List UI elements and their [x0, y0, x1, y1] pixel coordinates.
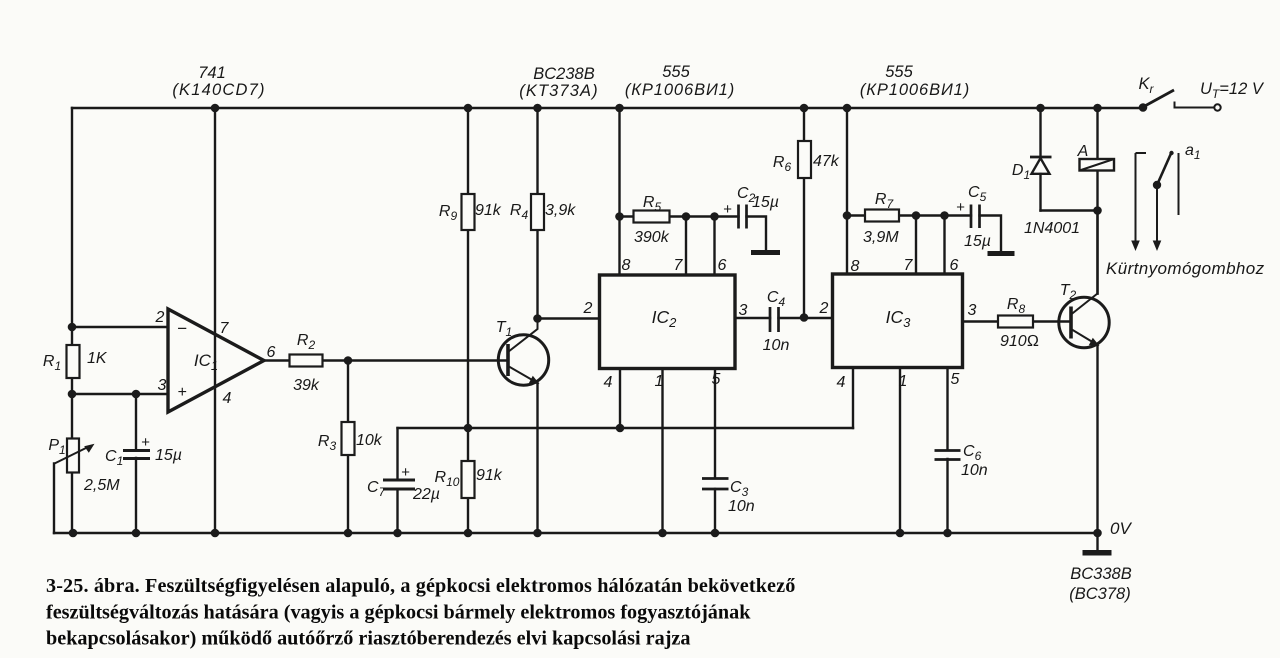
svg-text:R4: R4 [510, 202, 529, 222]
node IC2 pin6 [710, 212, 719, 221]
svg-text:+: + [956, 199, 965, 216]
svg-text:555: 555 [885, 63, 913, 81]
wire IC2 pin3 to C4 [735, 317, 770, 319]
svg-text:5: 5 [712, 371, 721, 388]
node pin2 left [68, 323, 77, 332]
wire IC2 pin8 column [618, 108, 620, 275]
label BC238B (KT373A) [519, 65, 598, 100]
wire IC3 pin8 column [846, 108, 848, 274]
svg-text:(BC378): (BC378) [1069, 585, 1130, 603]
label BC338B (BC378) [1069, 565, 1131, 603]
wire R6 column [803, 108, 805, 318]
svg-text:2: 2 [819, 300, 829, 317]
node R7 left [843, 211, 852, 220]
svg-text:22µ: 22µ [412, 486, 440, 503]
node 0V C6 [943, 529, 952, 538]
transistor Q1 T1 [496, 319, 549, 386]
resistor R8 [998, 296, 1039, 350]
wire 0V rail [54, 532, 1098, 534]
wire left vertical branch [71, 108, 73, 533]
svg-text:2: 2 [155, 309, 165, 326]
svg-text:D1: D1 [1012, 162, 1030, 182]
svg-text:UT=12 V: UT=12 V [1200, 80, 1265, 101]
relay A [1077, 143, 1114, 171]
wire op-amp pin2 [72, 326, 168, 328]
svg-text:C7: C7 [367, 479, 387, 499]
svg-text:10n: 10n [961, 462, 988, 479]
svg-text:39k: 39k [293, 377, 320, 394]
resistor R7 [863, 191, 899, 246]
wire D1 column [1039, 108, 1041, 211]
svg-text:7: 7 [674, 257, 684, 274]
ground below C5 [988, 251, 1015, 256]
wire IC3 pin5 / C6 column [946, 368, 948, 534]
svg-text:47k: 47k [813, 153, 840, 170]
op-amp U1 IC1 [155, 309, 276, 412]
svg-text:15µ: 15µ [752, 194, 779, 211]
wire T2 collector column [1096, 211, 1098, 294]
capacitor C5 [956, 184, 991, 250]
svg-text:(KT373A): (KT373A) [519, 82, 598, 100]
wire IC2 pin7 stub [685, 217, 687, 276]
wire IC3 pin4 riser [852, 368, 854, 429]
svg-text:3,9M: 3,9M [863, 229, 899, 246]
wire IC1 output to node A [264, 359, 348, 361]
node 0V C7 [393, 529, 402, 538]
wire R3 column [347, 361, 349, 534]
wire reset line y428 [398, 427, 854, 429]
svg-text:Kürtnyomógombhoz: Kürtnyomógombhoz [1106, 259, 1265, 278]
svg-text:A: A [1077, 143, 1089, 160]
svg-text:R7: R7 [875, 191, 895, 211]
a1 fixed contact [1178, 153, 1180, 215]
svg-text:R8: R8 [1007, 296, 1026, 316]
node 0V T2 emitter [1093, 529, 1102, 538]
svg-text:C6: C6 [963, 443, 982, 463]
svg-text:555: 555 [662, 63, 690, 81]
svg-text:BC238B: BC238B [533, 65, 594, 83]
node 0V IC3 pin1 [896, 529, 905, 538]
wire T1 collector to IC2 pin2 [538, 317, 600, 319]
node R6 bottom [800, 313, 809, 322]
ground at 0V rail [1083, 550, 1112, 556]
node D1 relay bottom [1093, 206, 1102, 215]
wire IC3 pin1 column [899, 368, 901, 534]
svg-text:4: 4 [223, 390, 232, 407]
wire T1 emitter column [536, 383, 538, 533]
svg-text:6: 6 [267, 344, 276, 361]
node R9 R10 reset [464, 424, 473, 433]
wire C7 top [396, 428, 398, 479]
svg-text:3: 3 [968, 302, 977, 319]
node top rail IC2 pin8 [615, 104, 624, 113]
wire C4 to IC3 pin2 [779, 317, 833, 319]
svg-text:15µ: 15µ [964, 233, 991, 250]
ground below C2 [751, 250, 780, 255]
svg-text:910Ω: 910Ω [1000, 333, 1039, 350]
svg-text:3-25. ábra. Feszültségfigyelés: 3-25. ábra. Feszültségfigyelésen alapuló… [46, 575, 795, 597]
capacitor C6 [935, 443, 988, 479]
svg-text:4: 4 [604, 374, 613, 391]
svg-text:7: 7 [220, 320, 230, 337]
svg-text:10k: 10k [356, 432, 383, 449]
node top rail D1 [1036, 104, 1045, 113]
svg-text:8: 8 [851, 258, 860, 275]
svg-text:C5: C5 [968, 184, 987, 204]
node 0V R10 [464, 529, 473, 538]
node top rail R9 [464, 104, 473, 113]
node top rail IC3 pin8 [843, 104, 852, 113]
resistor R4 [510, 194, 576, 230]
svg-text:−: − [177, 319, 187, 338]
left arrow [1136, 153, 1147, 243]
resistor R5 [634, 194, 670, 246]
svg-text:(K140CD7): (K140CD7) [172, 81, 265, 99]
wire R5 row [620, 215, 739, 217]
svg-text:bekapcsolásakor) működő autóőr: bekapcsolásakor) működő autóőrző riasztó… [46, 628, 690, 650]
node IC3 pin7 [912, 211, 921, 220]
node 0V P1 [69, 529, 78, 538]
wire IC2 pin5 / C3 column [714, 369, 716, 534]
svg-text:390k: 390k [634, 229, 670, 246]
svg-text:R3: R3 [318, 433, 337, 453]
svg-text:3: 3 [158, 377, 167, 394]
svg-text:+: + [141, 434, 150, 451]
resistor R6 [773, 141, 840, 178]
svg-text:1K: 1K [87, 350, 108, 367]
svg-text:T2: T2 [1060, 282, 1077, 302]
svg-text:1: 1 [655, 373, 664, 390]
svg-text:4: 4 [837, 374, 846, 391]
resistor R2 [290, 332, 323, 394]
svg-text:15µ: 15µ [155, 447, 182, 464]
wire R7 row [847, 214, 971, 216]
svg-text:+: + [177, 384, 186, 401]
svg-text:10n: 10n [763, 337, 790, 354]
capacitor C1 [105, 434, 182, 468]
wire R9-R10 column [467, 108, 469, 533]
node top rail relay [1093, 104, 1102, 113]
label 555 (KP1006BU1) first [625, 63, 735, 99]
node C1 top [132, 390, 141, 399]
node R5 left [615, 212, 624, 221]
switch a1 lever [1153, 181, 1161, 189]
svg-text:+: + [401, 464, 410, 481]
resistor R3 [318, 422, 383, 455]
wire T2 emitter column [1096, 345, 1098, 533]
capacitor C3 [702, 479, 755, 516]
svg-text:BC338B: BC338B [1070, 565, 1131, 583]
node top rail Kr [1139, 103, 1148, 112]
node IC3 pin6 [940, 211, 949, 220]
svg-text:feszültségváltozás hatására (v: feszültségváltozás hatására (vagyis a gé… [46, 602, 751, 624]
svg-text:3,9k: 3,9k [545, 202, 576, 219]
svg-text:91k: 91k [476, 467, 503, 484]
svg-text:5: 5 [951, 371, 960, 388]
resistor R10 [435, 461, 503, 498]
IC2 555 box [583, 257, 748, 391]
svg-text:6: 6 [718, 257, 727, 274]
svg-text:C4: C4 [767, 289, 786, 309]
svg-text:1N4001: 1N4001 [1024, 220, 1080, 237]
svg-text:3: 3 [739, 302, 748, 319]
svg-text:R2: R2 [297, 332, 316, 352]
svg-text:10n: 10n [728, 498, 755, 515]
svg-text:2,5M: 2,5M [83, 477, 120, 494]
svg-text:R1: R1 [43, 353, 61, 373]
label 741 (K140CD7) [172, 64, 265, 99]
svg-text:P1: P1 [48, 437, 65, 457]
svg-text:Kr: Kr [1138, 75, 1154, 96]
wire node A to T1 base [348, 359, 508, 361]
capacitor C2 [723, 185, 779, 229]
node 0V C3 [711, 529, 720, 538]
resistor R1 [43, 345, 108, 378]
svg-text:7: 7 [904, 257, 914, 274]
capacitor C7 [367, 464, 440, 503]
node IC2 pin7 [682, 212, 691, 221]
transistor Q2 T2 [1059, 282, 1109, 348]
wire relay column [1096, 108, 1098, 294]
svg-text:(КР1006ВИ1): (КР1006ВИ1) [625, 81, 735, 99]
resistor R9 [439, 194, 502, 230]
svg-text:C3: C3 [730, 479, 749, 499]
node top rail IC1 [211, 104, 220, 113]
wire C7 bottom [396, 489, 398, 533]
node 0V C1 [132, 529, 141, 538]
node top rail R4 [533, 104, 542, 113]
wire ground stub at 0V [1096, 533, 1098, 550]
svg-text:741: 741 [198, 64, 226, 82]
node T1 collector R4 [533, 314, 542, 323]
svg-text:+: + [723, 201, 732, 218]
wire IC3 pin6 stub [943, 216, 945, 275]
wire IC2 pin6 stub [713, 217, 715, 276]
wire C2 to ground [747, 217, 767, 251]
svg-text:8: 8 [622, 257, 631, 274]
wire P1 wiper drop [53, 464, 55, 534]
node pin3 left [68, 390, 77, 399]
wire R4 column [536, 108, 538, 319]
wire D1 to relay node [1041, 209, 1098, 211]
wire IC2 pin1 column [661, 369, 663, 534]
node 0V R3 [344, 529, 353, 538]
horn arrows and switch a1 [1131, 142, 1200, 251]
node top rail R6 [800, 104, 809, 113]
svg-text:T1: T1 [496, 319, 512, 339]
wire IC3 pin3 to R8 [963, 320, 1072, 322]
right arrow [1156, 185, 1158, 243]
node IC2 pin4 reset [616, 424, 625, 433]
node 0V IC1 [211, 529, 220, 538]
wire IC1 supply column [214, 108, 216, 533]
svg-text:C1: C1 [105, 448, 123, 468]
label 555 (KP1006BU1) second [860, 63, 970, 99]
IC3 555 box [819, 257, 977, 391]
svg-text:6: 6 [950, 257, 959, 274]
potentiometer P1 [48, 437, 120, 494]
node 0V T1 emitter [533, 529, 542, 538]
svg-text:0V: 0V [1110, 519, 1132, 538]
node 0V IC2 pin1 [658, 529, 667, 538]
svg-text:R6: R6 [773, 154, 792, 174]
svg-text:a1: a1 [1185, 142, 1201, 162]
svg-text:91k: 91k [475, 202, 502, 219]
svg-text:2: 2 [583, 300, 593, 317]
wire C1 column [135, 394, 137, 533]
wire IC3 pin7 stub [915, 216, 917, 275]
capacitor C4 [763, 289, 790, 354]
wire C5 to ground [980, 216, 1002, 252]
svg-text:(КР1006ВИ1): (КР1006ВИ1) [860, 81, 970, 99]
wire IC2 pin4 stub [619, 369, 621, 429]
node R2 R3 junction [344, 356, 353, 365]
wire op-amp pin3 [72, 393, 168, 395]
svg-text:R9: R9 [439, 203, 458, 223]
switch Kr [1138, 75, 1220, 111]
svg-text:1: 1 [899, 373, 908, 390]
wire top supply rail [72, 107, 1143, 109]
diode D1 [1012, 157, 1080, 237]
